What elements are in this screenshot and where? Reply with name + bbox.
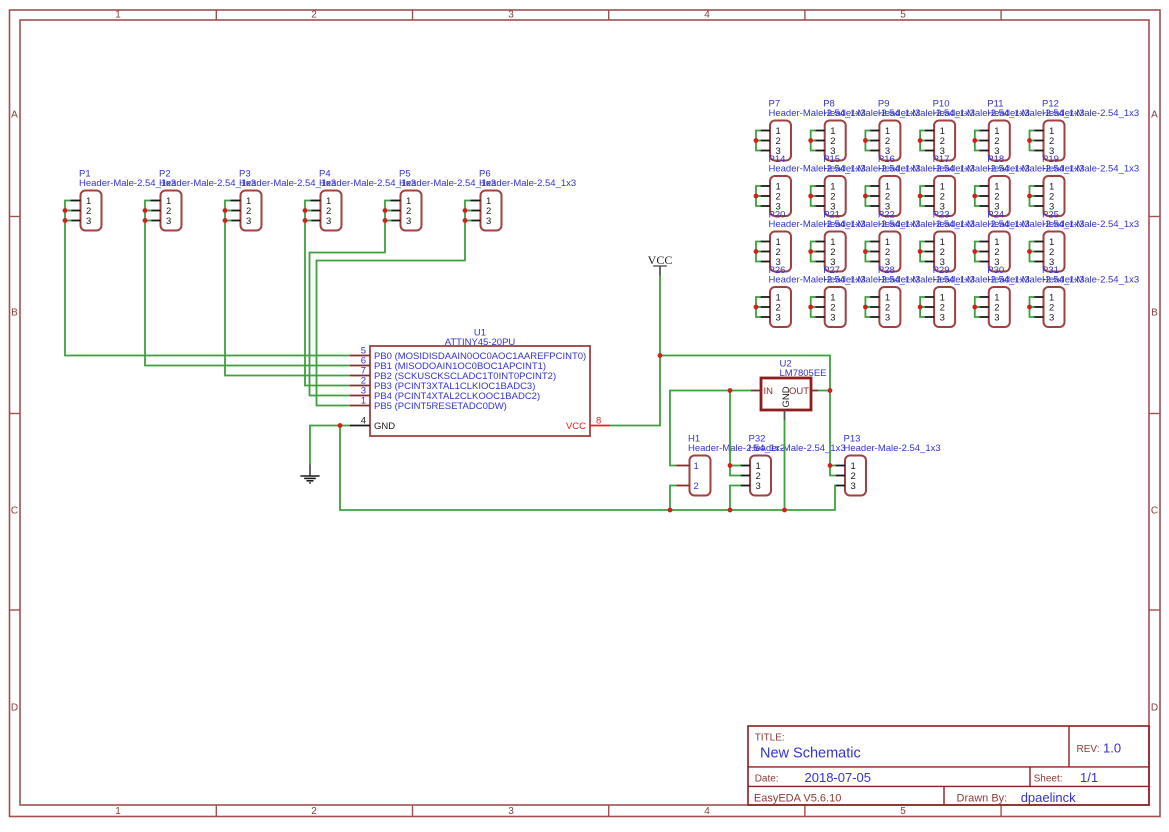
svg-text:Header-Male-2.54_1x3: Header-Male-2.54_1x3 [749, 443, 846, 454]
junction P4.2 [303, 208, 308, 213]
svg-text:EasyEDA V5.6.10: EasyEDA V5.6.10 [754, 793, 841, 805]
junction rail H1 node [668, 508, 673, 513]
wire VCC flag down [659, 276, 661, 356]
junction P9.2 [863, 138, 868, 143]
wire P8 pins tied [811, 131, 816, 151]
junction P29.2 [918, 305, 923, 310]
connector P20 [760, 210, 866, 272]
wire P11 pins tied [975, 131, 980, 151]
svg-text:A: A [1151, 110, 1158, 121]
wire VCC to U2.OUT column [660, 356, 830, 391]
svg-text:IN: IN [764, 386, 774, 397]
svg-text:Drawn By:: Drawn By: [957, 793, 1008, 805]
wire P6.3 stub [465, 220, 472, 222]
wire P3.3 stub [225, 220, 232, 222]
svg-text:GND: GND [781, 386, 792, 407]
svg-text:D: D [11, 703, 18, 714]
svg-text:A: A [11, 110, 18, 121]
svg-text:Header-Male-2.54_1x3: Header-Male-2.54_1x3 [1042, 274, 1139, 285]
svg-text:B: B [1151, 308, 1158, 319]
svg-text:3: 3 [756, 481, 761, 492]
power flag VCC [648, 253, 673, 276]
svg-text:3: 3 [508, 9, 514, 20]
wire P5.3 stub [385, 220, 392, 222]
wire P20 pins tied [756, 242, 761, 262]
svg-text:2: 2 [694, 481, 699, 492]
svg-text:C: C [11, 506, 18, 517]
connector P7 [760, 99, 866, 161]
connector P16 [869, 154, 975, 216]
junction P31.2 [1027, 305, 1032, 310]
svg-text:Header-Male-2.54_1x3: Header-Male-2.54_1x3 [1042, 108, 1139, 119]
junction rail U2 node [782, 508, 787, 513]
junction P5.3 [383, 218, 388, 223]
svg-text:8: 8 [596, 416, 601, 427]
svg-text:D: D [1151, 703, 1158, 714]
svg-text:New Schematic: New Schematic [760, 746, 861, 762]
svg-text:3: 3 [830, 312, 835, 323]
svg-text:VCC: VCC [648, 253, 673, 267]
junction U2.IN node [728, 388, 733, 393]
svg-text:TITLE:: TITLE: [755, 733, 785, 744]
connector P29 [924, 265, 1030, 327]
svg-text:4: 4 [361, 416, 366, 427]
junction VCC node [658, 353, 663, 358]
junction P1.2 [63, 208, 68, 213]
connector P6 [471, 169, 577, 231]
svg-text:3: 3 [326, 216, 331, 227]
svg-text:1.0: 1.0 [1103, 741, 1121, 756]
junction GND node [338, 423, 343, 428]
svg-text:3: 3 [166, 216, 171, 227]
wire P18 pins tied [975, 186, 980, 206]
connector P21 [815, 210, 921, 272]
junction P15.2 [808, 194, 813, 199]
connector P13 [835, 434, 941, 496]
wire P6.1 to U1.PB5 [317, 201, 471, 406]
junction P23.2 [918, 249, 923, 254]
wire P31 pins tied [1030, 297, 1035, 317]
svg-text:GND: GND [374, 421, 395, 432]
svg-text:REV:: REV: [1077, 744, 1100, 755]
junction P4.3 [303, 218, 308, 223]
svg-text:Header-Male-2.54_1x3: Header-Male-2.54_1x3 [479, 178, 576, 189]
connector P4 [311, 169, 417, 231]
svg-text:4: 4 [704, 806, 710, 817]
connector P14 [760, 154, 866, 216]
connector P8 [815, 99, 921, 161]
junction P14.2 [754, 194, 759, 199]
svg-text:5: 5 [900, 9, 906, 20]
connector P26 [760, 265, 866, 327]
svg-text:Header-Male-2.54_1x3: Header-Male-2.54_1x3 [1042, 219, 1139, 230]
wire P1.3 stub [65, 220, 72, 222]
wire P16 pins tied [865, 186, 870, 206]
connector P31 [1034, 265, 1140, 327]
junction P19.2 [1027, 194, 1032, 199]
ground [300, 465, 319, 484]
svg-text:3: 3 [885, 312, 890, 323]
wire U1.GND to ground [310, 426, 350, 465]
wire P32.3 to rail [730, 486, 741, 511]
wire P14 pins tied [756, 186, 761, 206]
svg-text:3: 3 [776, 312, 781, 323]
junction P25.2 [1027, 249, 1032, 254]
junction P24.2 [972, 249, 977, 254]
junction P26.2 [754, 305, 759, 310]
wire P5.2 stub [385, 210, 392, 212]
wire P2.3 stub [145, 220, 152, 222]
wire P4.3 stub [305, 220, 312, 222]
svg-text:3: 3 [994, 312, 999, 323]
wire P13.1 stub [830, 465, 836, 467]
svg-text:PB5 (PCINT5RESETADC0DW): PB5 (PCINT5RESETADC0DW) [374, 401, 507, 412]
junction P6.3 [463, 218, 468, 223]
wire P4.1 to U1.PB3 [305, 201, 350, 386]
svg-text:3: 3 [508, 806, 514, 817]
svg-text:2: 2 [311, 806, 317, 817]
wire P1.2 stub [65, 210, 72, 212]
wire P17 pins tied [920, 186, 925, 206]
wire P10 pins tied [920, 131, 925, 151]
wire P7 pins tied [756, 131, 761, 151]
wire P26 pins tied [756, 297, 761, 317]
svg-text:4: 4 [704, 9, 710, 20]
wire P3.1 to U1.PB2 [225, 201, 350, 376]
connector P30 [979, 265, 1085, 327]
svg-text:1: 1 [115, 806, 121, 817]
connector P27 [815, 265, 921, 327]
junction P16.2 [863, 194, 868, 199]
junction P30.2 [972, 305, 977, 310]
junction P18.2 [972, 194, 977, 199]
svg-text:5: 5 [900, 806, 906, 817]
svg-text:Date:: Date: [755, 774, 779, 785]
regulator U2 LM7805EE [751, 359, 827, 421]
junction U2.OUT node [828, 388, 833, 393]
junction P13.1 node [828, 463, 833, 468]
wire P23 pins tied [920, 242, 925, 262]
wire P25 pins tied [1030, 242, 1035, 262]
junction P3.3 [223, 218, 228, 223]
wire VCC to U1.VCC [610, 356, 660, 426]
junction P21.2 [808, 249, 813, 254]
svg-text:VCC: VCC [566, 421, 586, 432]
connector P12 [1034, 99, 1140, 161]
connector H1 [677, 434, 786, 496]
junction P11.2 [972, 138, 977, 143]
wire P27 pins tied [811, 297, 816, 317]
wire P12 pins tied [1030, 131, 1035, 151]
svg-text:Header-Male-2.54_1x3: Header-Male-2.54_1x3 [1042, 163, 1139, 174]
connector P11 [979, 99, 1085, 161]
svg-text:Header-Male-2.54_1x3: Header-Male-2.54_1x3 [844, 443, 941, 454]
connector P2 [151, 169, 257, 231]
wire P2.2 stub [145, 210, 152, 212]
connector P5 [391, 169, 497, 231]
svg-text:C: C [1151, 506, 1158, 517]
svg-text:3: 3 [851, 481, 856, 492]
svg-text:3: 3 [406, 216, 411, 227]
svg-text:dpaelinck: dpaelinck [1021, 790, 1076, 805]
svg-text:2: 2 [311, 9, 317, 20]
connector P32 [740, 434, 846, 496]
connector P28 [869, 265, 975, 327]
junction P2.2 [143, 208, 148, 213]
connector P19 [1034, 154, 1140, 216]
wire P5.1 to U1.PB4 [310, 201, 391, 396]
junction P32.1 node [728, 463, 733, 468]
wire P4.2 stub [305, 210, 312, 212]
wire U2.IN to H1.1 [670, 391, 751, 466]
junction P12.2 [1027, 138, 1032, 143]
svg-text:1: 1 [361, 396, 366, 407]
connector P24 [979, 210, 1085, 272]
junction P22.2 [863, 249, 868, 254]
wire GND rail [340, 426, 836, 511]
svg-text:1/1: 1/1 [1080, 770, 1098, 785]
junction P27.2 [808, 305, 813, 310]
svg-text:B: B [11, 308, 18, 319]
wire P21 pins tied [811, 242, 816, 262]
svg-text:3: 3 [1049, 312, 1054, 323]
junction P8.2 [808, 138, 813, 143]
svg-text:3: 3 [940, 312, 945, 323]
junction P17.2 [918, 194, 923, 199]
junction P5.2 [383, 208, 388, 213]
svg-text:3: 3 [86, 216, 91, 227]
wire U2.OUT stub [818, 390, 830, 392]
junction P7.2 [754, 138, 759, 143]
junction P2.3 [143, 218, 148, 223]
wire P29 pins tied [920, 297, 925, 317]
junction P20.2 [754, 249, 759, 254]
connector P22 [869, 210, 975, 272]
connector P18 [979, 154, 1085, 216]
wire P28 pins tied [865, 297, 870, 317]
wire P6.2 stub [465, 210, 472, 212]
connector P9 [869, 99, 975, 161]
ic U1 ATTINY45-20PU [350, 328, 610, 437]
wire IN branch to P32 [730, 391, 741, 476]
svg-text:1: 1 [694, 461, 699, 472]
wire P3.2 stub [225, 210, 232, 212]
wire OUT down to P13 [830, 391, 836, 476]
wire P19 pins tied [1030, 186, 1035, 206]
junction P6.2 [463, 208, 468, 213]
wire P9 pins tied [865, 131, 870, 151]
connector P23 [924, 210, 1030, 272]
connector P25 [1034, 210, 1140, 272]
svg-text:2018-07-05: 2018-07-05 [805, 770, 872, 785]
wire P22 pins tied [865, 242, 870, 262]
wire H1.2 to rail [670, 486, 677, 511]
connector P10 [924, 99, 1030, 161]
wire P30 pins tied [975, 297, 980, 317]
connector P17 [924, 154, 1030, 216]
junction P1.3 [63, 218, 68, 223]
svg-text:3: 3 [246, 216, 251, 227]
connector P3 [231, 169, 337, 231]
junction rail P32 node [728, 508, 733, 513]
wire U2.GND to rail [784, 420, 786, 510]
junction P10.2 [918, 138, 923, 143]
wire P24 pins tied [975, 242, 980, 262]
svg-text:1: 1 [115, 9, 121, 20]
svg-text:Sheet:: Sheet: [1034, 774, 1063, 785]
junction P28.2 [863, 305, 868, 310]
wire P2.1 to U1.PB1 [145, 201, 350, 366]
wire P1.1 to U1.PB0 [65, 201, 350, 356]
svg-text:3: 3 [486, 216, 491, 227]
title block [748, 726, 1149, 805]
connector P1 [71, 169, 177, 231]
connector P15 [815, 154, 921, 216]
wire P32.1 stub [730, 465, 741, 467]
wire P15 pins tied [811, 186, 816, 206]
junction P3.2 [223, 208, 228, 213]
